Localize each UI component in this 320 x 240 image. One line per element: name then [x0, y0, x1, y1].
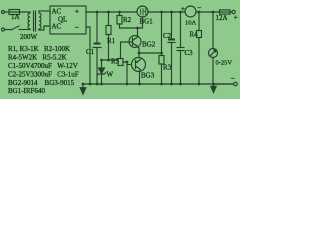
- svg-text:R1, R3-1K R2-100K: R1, R3-1K R2-100K: [8, 45, 70, 53]
- wire zener W branch: [101, 60, 103, 68]
- capacitor C3 plates: [177, 47, 184, 49]
- node R3 mid: [160, 52, 163, 55]
- wire reference node to R5: [102, 59, 119, 61]
- node BG1 gate: [136, 27, 139, 30]
- wire C3 to ground rail: [180, 51, 182, 85]
- svg-text:R1: R1: [107, 37, 116, 45]
- wire voltmeter to ground rail: [212, 58, 214, 85]
- svg-text:200W: 200W: [20, 33, 38, 41]
- wire fuse to plus terminal: [230, 11, 232, 13]
- wire ground rail to minus terminal: [214, 83, 234, 85]
- resistor R3: [159, 56, 164, 65]
- wire bridge + output along top rail: [86, 11, 137, 13]
- wire R3 to ground rail: [161, 64, 163, 84]
- plus output terminal: [232, 10, 235, 13]
- transistor BG2 9014: [129, 36, 141, 48]
- svg-text:12A: 12A: [216, 14, 228, 22]
- ammeter 10A: [185, 6, 196, 17]
- ground arrow right: [211, 85, 216, 93]
- wire top rail after BG1: [148, 11, 185, 13]
- svg-text:R2: R2: [123, 16, 132, 24]
- svg-text:BG1-IRF640: BG1-IRF640: [8, 87, 45, 95]
- node zener reference: [100, 59, 103, 62]
- svg-text:BG3: BG3: [141, 72, 155, 80]
- wire rail to resistor R1: [108, 12, 110, 26]
- svg-text:–: –: [197, 4, 202, 12]
- svg-text:10A: 10A: [185, 20, 197, 27]
- svg-text:C2: C2: [163, 32, 172, 40]
- voltmeter V 0-25V: [209, 49, 218, 58]
- node base column ground: [126, 83, 129, 86]
- wire R2 to BG1 gate: [120, 17, 143, 28]
- svg-text:BG1: BG1: [140, 18, 154, 26]
- resistor R1: [106, 26, 111, 35]
- wire BG3 bottom lead to ground rail: [139, 71, 141, 85]
- node R3 ground: [160, 83, 163, 86]
- wire capacitor C1 branch: [96, 12, 98, 44]
- transformer B secondary coil: [39, 11, 41, 30]
- mains plug top pin: [2, 11, 5, 14]
- wire rail down to voltmeter: [212, 12, 214, 49]
- svg-text:W: W: [107, 71, 114, 79]
- node BG2 emitter: [138, 52, 141, 55]
- svg-text:+: +: [234, 14, 238, 22]
- wire switch to transformer primary: [19, 29, 29, 31]
- wire secondary bottom to bridge AC input: [39, 26, 50, 30]
- wire BG3 top lead: [138, 53, 140, 58]
- wire rail down to resistor R4: [198, 12, 200, 31]
- svg-text:C1: C1: [86, 48, 95, 56]
- node R2 top: [118, 11, 121, 14]
- transformer B core: [33, 11, 35, 31]
- svg-text:1A: 1A: [11, 13, 20, 21]
- ground arrow left: [80, 84, 86, 94]
- svg-text:–: –: [230, 74, 235, 82]
- transformer B primary coil: [28, 12, 30, 30]
- svg-text:R4-5W2K R5-5.2K: R4-5W2K R5-5.2K: [8, 54, 67, 62]
- svg-text:0-25V: 0-25V: [216, 60, 233, 67]
- resistor R4: [197, 31, 202, 38]
- switch K blade: [11, 26, 19, 30]
- node R1 top: [107, 11, 110, 14]
- wire rail down to resistor R3: [161, 12, 163, 56]
- svg-text:C3: C3: [185, 49, 194, 57]
- wire R1 to reference node: [108, 35, 110, 61]
- node C3 ground: [179, 83, 182, 86]
- node C1 top: [96, 11, 99, 14]
- wire BG2 emitter down: [138, 47, 140, 54]
- svg-text:R5: R5: [111, 58, 120, 66]
- resistor R2: [117, 16, 122, 25]
- wire top rail after ammeter: [196, 11, 220, 13]
- resistor R5: [118, 59, 123, 66]
- bridge rectifier QL block: [50, 6, 86, 34]
- svg-text:C2-25V3300uF C3-1uF: C2-25V3300uF C3-1uF: [8, 71, 79, 79]
- node R1 reference: [107, 59, 110, 62]
- wire R5 top to BG2 base: [121, 42, 133, 59]
- mains plug bottom pin: [2, 28, 5, 31]
- node R3 top: [160, 11, 163, 14]
- fuse BX 1A: [9, 10, 20, 15]
- capacitor C1 plates: [95, 43, 100, 45]
- wire BG2 collector up to gate wire: [137, 28, 139, 37]
- svg-text:AC: AC: [52, 8, 62, 16]
- fuse 12A: [220, 10, 231, 14]
- wire C2 to ground rail: [171, 43, 173, 85]
- transistor BG3 9015: [132, 58, 146, 72]
- svg-text:C1-50V4700uF W-12V: C1-50V4700uF W-12V: [8, 62, 78, 70]
- node C2 top: [170, 11, 173, 14]
- wire plug to switch: [5, 29, 12, 31]
- node zener ground: [100, 83, 103, 86]
- svg-text:+: +: [75, 8, 79, 16]
- node voltmeter top: [212, 11, 215, 14]
- node R4 top: [198, 11, 201, 14]
- node C3 top: [179, 11, 182, 14]
- svg-text:+: +: [181, 5, 185, 13]
- node voltmeter ground: [212, 83, 215, 86]
- wire capacitor C2 branch: [171, 12, 173, 39]
- svg-text:R4: R4: [190, 31, 199, 39]
- svg-text:–: –: [74, 23, 79, 31]
- wire capacitor C3 branch: [180, 12, 182, 48]
- node ground rail left end: [82, 83, 85, 86]
- svg-text:R3: R3: [163, 64, 172, 72]
- wire fuse to transformer primary: [9, 11, 29, 13]
- node C1 ground: [96, 83, 99, 86]
- wire BG3 base: [127, 64, 132, 66]
- node bridge minus ground: [89, 83, 92, 86]
- wire bridge - output down to ground rail: [86, 27, 90, 84]
- wire rail to resistor R2: [119, 12, 121, 16]
- wire R5 right to base node and ground: [123, 62, 127, 84]
- svg-text:BG2: BG2: [142, 41, 156, 49]
- node C2 ground: [170, 83, 173, 86]
- wire plug to fuse: [5, 11, 10, 13]
- wire ground rail (bottom): [83, 83, 234, 85]
- svg-text:BG2-9014 BG3-9015: BG2-9014 BG3-9015: [8, 79, 75, 87]
- zener diode W: [99, 68, 105, 74]
- capacitor C2 plates: [169, 39, 174, 41]
- node BG3 ground: [138, 83, 141, 86]
- wire R4 to ground rail: [198, 38, 200, 85]
- node base junction: [126, 61, 129, 64]
- minus output terminal: [234, 82, 238, 86]
- svg-text:AC: AC: [52, 23, 62, 31]
- wire BG3 top to R3: [139, 52, 162, 54]
- wire secondary top to bridge AC input: [39, 10, 50, 12]
- node R4 ground: [198, 83, 201, 86]
- transistor BG1 IRF640: [137, 6, 148, 17]
